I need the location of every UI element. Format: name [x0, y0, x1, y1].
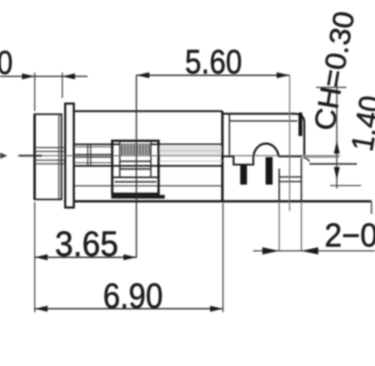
nut (threaded bushing) — [35, 114, 62, 199]
tube (barrel) — [75, 144, 223, 166]
svg-text:3.65: 3.65 — [55, 225, 118, 264]
svg-text:2−0.9: 2−0.9 — [325, 217, 375, 254]
flange — [65, 104, 74, 208]
bent terminal to right — [303, 157, 310, 161]
switch block inner horizontals — [112, 161, 158, 182]
body inner line — [75, 185, 223, 187]
body outline — [73, 111, 372, 214]
dimension 3.65 — [35, 202, 137, 312]
pin 1 — [240, 165, 247, 185]
dome contact — [253, 144, 278, 157]
dimension 1.40 (vertical) — [316, 76, 361, 189]
switch block coil hatch — [120, 144, 151, 155]
svg-text:6.90: 6.90 — [103, 276, 163, 315]
center line — [0, 153, 340, 159]
barrel front rim — [88, 145, 91, 166]
svg-text:0: 0 — [0, 44, 13, 82]
contact line to rear — [279, 155, 302, 157]
dimension 6.90 — [35, 203, 223, 312]
dimension 5.60 — [136, 72, 289, 258]
switch block bottom plate — [111, 195, 165, 199]
svg-text:5.60: 5.60 — [185, 42, 242, 81]
rear bracket outline — [222, 113, 304, 159]
rear terminal legs — [279, 158, 301, 251]
dimension 2-0.9 pins — [253, 247, 375, 254]
shaft lines through nut — [36, 148, 66, 164]
switch block inner verticals — [120, 142, 151, 177]
switch block outline — [112, 141, 158, 194]
contact spring profile — [223, 156, 253, 164]
pin 2 — [266, 157, 273, 185]
dimension left (cut label 0) — [0, 73, 88, 112]
